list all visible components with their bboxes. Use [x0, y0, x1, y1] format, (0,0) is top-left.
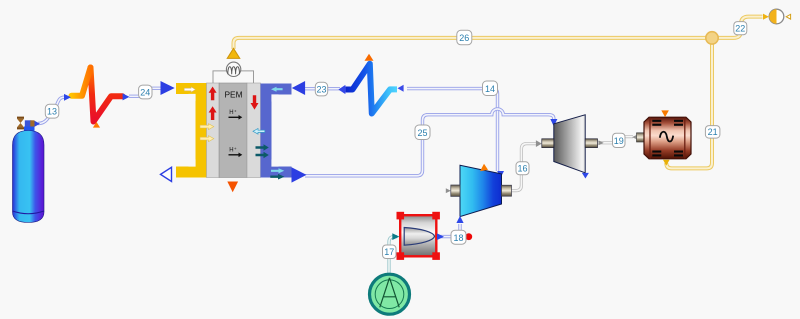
PEM cathode duct (blue) [266, 89, 292, 172]
label 16 [516, 162, 529, 175]
anode red up arrow 2 [209, 106, 217, 120]
label 26 [457, 30, 472, 45]
svg-text:21: 21 [708, 127, 718, 137]
label 21 [705, 126, 720, 139]
anode duct flow arrow top [184, 87, 195, 93]
svg-text:H⁺: H⁺ [229, 109, 237, 116]
electric bracket [213, 71, 254, 83]
H+ transport arrow upper [229, 109, 243, 120]
svg-text:18: 18 [453, 233, 463, 243]
label 23 [315, 82, 327, 96]
cathode cyan left arrow [253, 129, 265, 135]
PEM membrane column [219, 83, 247, 178]
wire line 24 [129, 88, 162, 96]
HX1 inlet arrow [64, 94, 71, 101]
wire line 13 [38, 97, 66, 123]
cathode gas diffusion column [247, 83, 261, 178]
HX2 outlet arrow [338, 85, 345, 94]
anode pale arrows [200, 124, 214, 130]
anode outlet triangle (unconnected) [161, 167, 172, 181]
label 25 [415, 125, 430, 140]
hydrogen cylinder valve [17, 117, 40, 130]
svg-text:23: 23 [316, 85, 326, 95]
load resistor circle [226, 62, 240, 76]
turbine inlet arrow [550, 119, 557, 126]
cathode duct bottom arrows [271, 168, 284, 173]
anode red up arrow 1 [209, 87, 217, 101]
HX1 warning triangle [93, 122, 100, 128]
label 24 [139, 85, 152, 99]
generator G1 [637, 110, 692, 165]
start value red dot [465, 233, 472, 240]
wire line 14 [407, 89, 498, 171]
wire line 23 [304, 87, 340, 90]
wire line 17 [389, 237, 397, 274]
svg-text:22: 22 [735, 24, 745, 34]
H+ transport arrow lower [229, 146, 243, 157]
junction node [706, 32, 718, 44]
grid connection symbol [763, 9, 791, 24]
svg-text:19: 19 [614, 136, 624, 146]
shaft arrows line 19 [599, 140, 604, 145]
svg-text:14: 14 [485, 84, 495, 94]
hydrogen cylinder body [13, 131, 45, 223]
label 19 [613, 133, 626, 147]
svg-text:13: 13 [47, 107, 57, 117]
label 13 [45, 104, 59, 118]
wire line 25 [305, 109, 554, 176]
svg-text:17: 17 [384, 247, 394, 257]
label 17 [383, 245, 397, 259]
PEM anode inlet arrow [161, 81, 175, 95]
HX2 warning triangle [365, 54, 374, 61]
hydrogen cylinder neck [24, 127, 35, 133]
heater HX1 zigzag (hydrogen preheater) [91, 68, 123, 122]
label 18 [451, 230, 466, 244]
PEM bottom warning triangle [227, 182, 238, 193]
air boundary symbol A [370, 274, 410, 314]
combustion chamber (selected) [392, 212, 444, 260]
cathode teal arrows [256, 144, 269, 150]
shaft line 19 [598, 137, 633, 143]
anode gas diffusion column [207, 83, 220, 178]
cathode duct cyan left arrow top [271, 87, 283, 92]
electric line 26 [234, 38, 713, 49]
svg-text:H⁺: H⁺ [229, 146, 237, 153]
electric line 21 [666, 40, 712, 168]
cathode red down arrow [251, 95, 259, 109]
svg-text:PEM: PEM [225, 89, 243, 99]
svg-text:16: 16 [517, 164, 527, 174]
label 22 [734, 22, 747, 35]
compressor C1 [446, 164, 512, 223]
turbine T1 [536, 115, 598, 179]
PEM electric port triangle [227, 48, 240, 58]
cooler HX2 zigzag (cathode air cooler) [346, 64, 398, 114]
HX1 outlet arrow [123, 93, 130, 100]
wire line 18 [438, 224, 460, 237]
cathode duct inner corner bevels [271, 94, 278, 101]
PEM cathode inlet arrow [292, 81, 305, 95]
svg-text:26: 26 [459, 33, 469, 43]
svg-text:24: 24 [140, 88, 150, 98]
HX2 inlet arrow [398, 85, 404, 92]
label 14 [483, 81, 498, 96]
compressor outlet arrow [497, 171, 504, 178]
PEM cathode outlet arrow [292, 167, 307, 182]
svg-text:25: 25 [417, 128, 427, 138]
electric line 22 [712, 17, 763, 38]
shaft line 16 [512, 144, 537, 191]
anode duct inner corner bevels [188, 94, 195, 101]
PEM anode duct (yellow) [176, 89, 201, 173]
